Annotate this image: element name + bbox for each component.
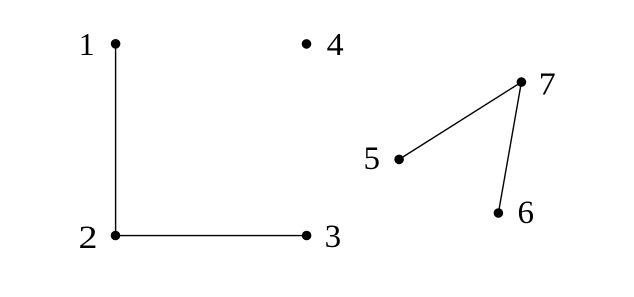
svg-text:2: 2: [79, 218, 98, 255]
node 4 dot: [302, 39, 312, 49]
node 1 dot: [111, 39, 121, 49]
wire edge 1-2: [115, 44, 117, 236]
node 5 dot: [394, 155, 404, 165]
wire edge 2-3: [116, 235, 307, 237]
node 7 dot: [517, 77, 527, 87]
svg-text:6: 6: [517, 195, 534, 231]
svg-text:7: 7: [539, 68, 556, 103]
node 2 dot: [111, 231, 121, 241]
wire edge 5-7: [399, 82, 521, 159]
svg-text:1: 1: [79, 27, 95, 62]
svg-text:4: 4: [327, 28, 344, 63]
node 6 dot: [494, 208, 504, 218]
wire edge 6-7: [498, 82, 521, 213]
svg-text:3: 3: [325, 219, 342, 255]
node 3 dot: [302, 231, 312, 241]
svg-text:5: 5: [363, 141, 380, 177]
